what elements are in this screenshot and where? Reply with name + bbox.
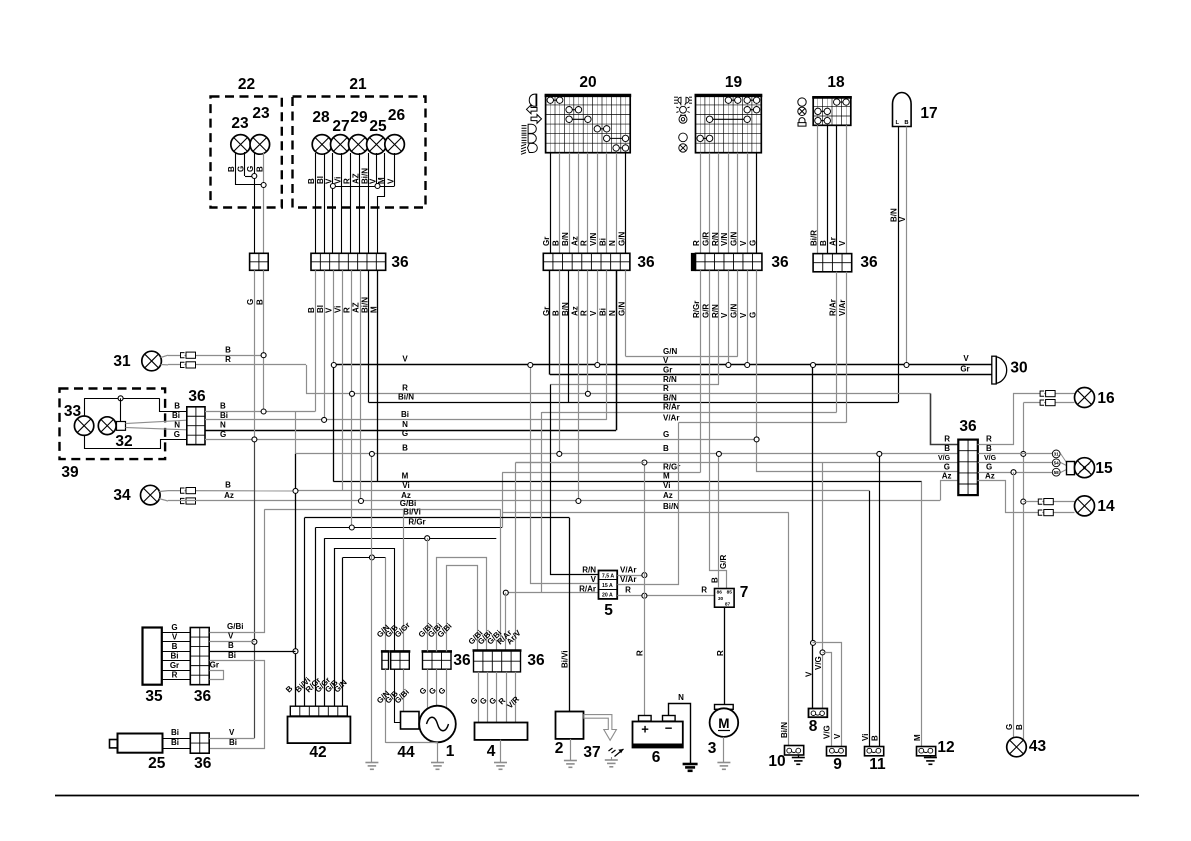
bulb unit 17	[893, 93, 912, 127]
unit 25 box (flasher)	[118, 734, 163, 753]
svg-text:15 A: 15 A	[602, 583, 613, 589]
lamp 14	[1075, 496, 1095, 516]
wire V(1) from connector 19	[728, 270, 730, 365]
bus wire V	[334, 364, 997, 366]
svg-text:−: −	[665, 721, 673, 736]
Bi/N drop to unit 10	[788, 512, 790, 746]
relay output to motor	[724, 607, 726, 704]
svg-text:B/N: B/N	[663, 393, 677, 402]
bus wire V/G	[516, 462, 959, 464]
svg-text:Az: Az	[663, 491, 673, 500]
svg-text:Vi: Vi	[334, 177, 343, 184]
svg-text:N: N	[608, 310, 617, 316]
svg-text:M: M	[663, 472, 670, 481]
svg-text:1: 1	[446, 743, 455, 760]
svg-text:B: B	[228, 641, 234, 650]
lamp 25 (switch cluster)	[367, 135, 387, 155]
svg-text:B/N: B/N	[561, 232, 570, 246]
svg-text:Bl: Bl	[316, 305, 325, 313]
svg-text:27: 27	[332, 118, 349, 135]
Az path to lamp 14	[978, 481, 1075, 513]
svg-text:Bi/N: Bi/N	[398, 392, 414, 401]
svg-text:V: V	[720, 312, 729, 318]
svg-text:M: M	[377, 177, 386, 184]
svg-text:Bi/R: Bi/R	[810, 230, 819, 246]
bus wire Az	[168, 500, 940, 502]
wire B to unit 11	[879, 454, 881, 746]
svg-text:V: V	[838, 240, 847, 246]
wires from switch 20 to connector 36	[550, 153, 552, 254]
svg-text:V: V	[591, 575, 597, 584]
svg-text:R/Gr: R/Gr	[663, 463, 680, 472]
lamp 23 (left)	[231, 135, 251, 155]
svg-text:B: B	[174, 402, 180, 411]
bus wire G	[205, 439, 757, 441]
wire R from connector 21	[351, 270, 353, 527]
svg-text:G/N: G/N	[730, 232, 739, 246]
lamp 15 terminals 31 54 58	[1052, 450, 1060, 458]
R/Ar drop to fuse input	[541, 412, 543, 593]
svg-text:V: V	[172, 632, 178, 641]
svg-text:28: 28	[312, 109, 330, 126]
connector 36 under 18	[822, 254, 824, 272]
ground riser from B bus	[371, 454, 373, 558]
svg-text:36: 36	[188, 388, 206, 405]
unit 35 box	[143, 628, 162, 685]
unit 44 G/B riser	[394, 548, 396, 651]
svg-text:B: B	[1015, 724, 1024, 730]
bus wire R/Ar	[542, 412, 837, 414]
svg-text:G: G	[246, 166, 255, 172]
unit 42 wire G/Gr riser	[324, 538, 326, 706]
svg-text:M: M	[718, 716, 729, 731]
svg-text:B: B	[904, 120, 908, 126]
unit 35 connector 36	[199, 628, 201, 685]
svg-text:B: B	[220, 402, 226, 411]
svg-text:44: 44	[397, 744, 415, 761]
svg-text:L: L	[896, 120, 900, 126]
relay wire B to B bus	[718, 454, 720, 588]
bus wire Bi/N - B/N	[369, 402, 898, 404]
svg-text:Bl: Bl	[316, 176, 325, 184]
wire R/Gr from connector 19	[700, 270, 702, 472]
svg-text:Bi: Bi	[220, 411, 228, 420]
unit 12 (switch)	[917, 747, 936, 756]
svg-text:R/Gr: R/Gr	[408, 517, 425, 526]
svg-text:Vi: Vi	[402, 481, 409, 490]
switch grid 19	[700, 95, 702, 152]
switch 19 contact rows	[728, 99, 737, 101]
svg-text:B: B	[663, 444, 669, 453]
unit 44 G/N riser	[385, 557, 387, 651]
bus wire R/Gr left segment to unit 42	[316, 527, 503, 529]
wire B from connector 20	[559, 270, 561, 454]
wire G/R from connector 19 to relay	[710, 271, 727, 589]
lamp 28	[312, 135, 332, 155]
unit 35 wires to connector	[161, 632, 190, 634]
svg-text:12: 12	[937, 739, 954, 756]
spark ground	[611, 757, 613, 760]
alternator ground wire	[437, 742, 439, 762]
svg-text:V: V	[228, 632, 234, 641]
lamp 26	[385, 135, 405, 155]
svg-text:V: V	[325, 178, 334, 184]
svg-text:14: 14	[1097, 498, 1115, 515]
svg-text:N: N	[174, 421, 180, 430]
svg-text:54: 54	[1054, 461, 1060, 466]
svg-text:B: B	[307, 178, 316, 184]
wire Gr from connector 20	[549, 270, 551, 374]
unit 2 ground	[570, 739, 572, 761]
fuse output R to relay	[617, 595, 714, 597]
unit 44 box	[401, 712, 420, 730]
B row to lamp 15 terminal 31	[978, 453, 1053, 455]
V/G row to lamp 15 terminal 54	[978, 462, 1053, 464]
svg-text:R: R	[402, 384, 408, 393]
bus wire M	[334, 481, 922, 483]
unit 8 (front brake switch)	[809, 709, 828, 718]
wire M to unit 12	[921, 482, 923, 746]
svg-text:Gr: Gr	[170, 661, 179, 670]
Bi/Vi wire drop to unit 2	[569, 518, 571, 712]
svg-text:R: R	[580, 240, 589, 246]
svg-text:7,5 A: 7,5 A	[602, 574, 614, 580]
svg-text:B: B	[256, 166, 265, 172]
alternator ground symbol	[431, 762, 444, 764]
wire Az from connector 20	[578, 270, 580, 501]
lamp 33	[74, 416, 93, 435]
switch 20 contact rows	[550, 99, 559, 101]
svg-text:G: G	[171, 623, 177, 632]
bus wire G/N top	[626, 356, 738, 358]
wire V/G to unit 8	[822, 463, 824, 709]
svg-text:G: G	[246, 299, 255, 305]
svg-text:+: +	[641, 721, 649, 736]
ground symbol of motor 3	[717, 762, 730, 764]
svg-text:B: B	[172, 642, 178, 651]
fuse box 5	[599, 571, 618, 599]
svg-text:V/N: V/N	[589, 232, 598, 246]
unit 44 connector 36	[382, 659, 389, 661]
unit 44 G/Gr riser	[403, 509, 405, 651]
bus wire Bi/N right segment	[502, 512, 789, 514]
wire V from connector 21 continuing to M bus	[333, 270, 335, 365]
svg-text:R: R	[625, 585, 631, 594]
unit 12 ground	[930, 755, 932, 757]
unit 2 (ignition coil)	[556, 712, 584, 739]
svg-text:16: 16	[1097, 390, 1115, 407]
svg-text:Bi: Bi	[171, 738, 179, 747]
wire V from connector 20	[597, 270, 599, 365]
svg-text:31: 31	[113, 353, 131, 370]
svg-text:23: 23	[252, 105, 270, 122]
lamp cluster 21 wires	[315, 153, 317, 196]
motor ground wire	[723, 737, 725, 763]
svg-text:V: V	[229, 728, 235, 737]
svg-text:10: 10	[768, 753, 785, 770]
V distribution wire for 35 and 25 (continuation of G wire)	[254, 439, 256, 738]
unit 35 output V	[209, 641, 254, 643]
svg-text:36: 36	[771, 254, 789, 271]
svg-text:42: 42	[309, 744, 326, 761]
svg-text:V: V	[386, 178, 395, 184]
svg-text:B: B	[710, 577, 719, 583]
G row to lamp 15 terminal 58	[978, 472, 1053, 474]
svg-text:32: 32	[115, 433, 132, 450]
wire G from connector 19	[756, 270, 758, 439]
svg-text:Bi: Bi	[228, 651, 236, 660]
svg-text:3: 3	[708, 740, 717, 757]
svg-text:Gr: Gr	[210, 660, 219, 669]
B wire right drop (16-14-43)	[1023, 403, 1025, 741]
V/G drop to unit 4	[515, 463, 517, 651]
svg-text:8: 8	[809, 718, 818, 735]
svg-text:V: V	[325, 307, 334, 313]
lamp 32 (tail/stop bulb)	[98, 417, 116, 435]
svg-text:N: N	[608, 240, 617, 246]
svg-text:V: V	[898, 216, 907, 222]
lamp 34 wire Az (start of Az line)	[159, 499, 168, 501]
switch 20 function icons	[521, 94, 542, 155]
fuse output V/Ar 1	[617, 575, 644, 577]
wire B/N from connector 20	[568, 270, 570, 402]
wire N from connector 20	[616, 270, 618, 430]
battery ground symbol	[683, 763, 698, 766]
relay 7	[715, 589, 735, 608]
bus wire G/Gr (42 to alternator/4)	[325, 538, 497, 540]
unit 4 wires below connector	[478, 672, 480, 722]
svg-text:V: V	[833, 733, 842, 739]
svg-text:G: G	[220, 430, 226, 439]
unit 11 (switch)	[865, 747, 884, 756]
svg-text:30: 30	[1010, 360, 1027, 377]
wire Vi to unit 11	[869, 491, 871, 746]
Az bus riser to right connector	[941, 481, 959, 501]
svg-text:Bi/Vi: Bi/Vi	[560, 650, 569, 668]
svg-text:V/Ar: V/Ar	[838, 300, 847, 316]
wire V(2) from connector 19	[747, 270, 749, 365]
svg-text:30: 30	[718, 596, 724, 602]
svg-text:58: 58	[1054, 470, 1060, 475]
alternator 1	[419, 706, 456, 743]
unit 9 (rear brake switch)	[827, 747, 847, 756]
fuse output V/Ar 2 rising to V/Ar bus	[618, 423, 679, 585]
svg-text:86: 86	[717, 590, 723, 596]
svg-text:G: G	[174, 430, 180, 439]
alternator wires G below connector	[427, 669, 429, 707]
lamp 27	[331, 135, 351, 155]
svg-text:25: 25	[369, 118, 387, 135]
battery positive wire R	[644, 463, 646, 716]
box 39 internal wiring	[84, 398, 86, 416]
lamp 43	[1007, 737, 1027, 757]
svg-text:V: V	[589, 310, 598, 316]
unit 25 connector 36	[199, 733, 201, 753]
svg-text:87: 87	[725, 601, 731, 607]
wire Vi from connector 21	[342, 270, 344, 491]
svg-text:19: 19	[725, 74, 743, 91]
ground drop below 42 area	[371, 557, 373, 762]
svg-text:37: 37	[583, 744, 600, 761]
lamp 16 wires	[978, 394, 1075, 445]
spark gap symbol 37	[609, 748, 624, 757]
svg-text:Gr: Gr	[960, 365, 969, 374]
unit box 22 (dashed enclosure)	[211, 97, 282, 208]
svg-text:G: G	[237, 166, 246, 172]
unit 25 output V	[209, 738, 254, 740]
svg-text:Vi: Vi	[663, 481, 670, 490]
bus wire N	[205, 430, 616, 432]
svg-text:18: 18	[827, 74, 845, 91]
right connector 36	[967, 440, 969, 496]
wire V to unit 8	[812, 365, 814, 709]
svg-text:29: 29	[350, 109, 368, 126]
svg-text:Bi: Bi	[171, 652, 179, 661]
svg-text:G/N: G/N	[617, 232, 626, 246]
wire G/N from connector 19	[737, 270, 739, 356]
lamp 34 (front turn signal left)	[141, 485, 161, 505]
lamp 23 wires and junctions	[235, 152, 237, 185]
horn 30	[992, 356, 996, 384]
bus wire Bi	[205, 419, 607, 421]
svg-text:V/G: V/G	[984, 455, 997, 462]
svg-text:B: B	[819, 240, 828, 246]
svg-text:17: 17	[920, 105, 937, 122]
svg-text:V: V	[804, 671, 813, 677]
svg-text:M: M	[402, 471, 409, 480]
bus wire B lower segment	[296, 453, 959, 455]
wire R/Ar from connector 18	[836, 272, 838, 412]
svg-text:B: B	[402, 444, 408, 453]
svg-text:85: 85	[727, 590, 733, 596]
svg-text:N: N	[678, 693, 684, 702]
wire R from connector 20	[587, 270, 589, 394]
svg-text:B: B	[307, 307, 316, 313]
unit 4 connector 36	[482, 651, 484, 672]
connector under 22	[258, 253, 260, 270]
R/N drop to fuse	[551, 385, 599, 575]
svg-text:V/Ar: V/Ar	[620, 566, 636, 575]
wire V/Ar from connector 18	[846, 272, 848, 423]
svg-text:15: 15	[1095, 460, 1113, 477]
svg-text:G/R: G/R	[701, 232, 710, 246]
unit 35 output B	[209, 651, 295, 653]
svg-text:2: 2	[555, 740, 564, 757]
svg-text:N: N	[402, 420, 408, 429]
switch grid 18	[817, 97, 819, 125]
svg-text:Bi: Bi	[599, 238, 608, 246]
bus wire G/N of 42 with ground tap	[343, 557, 386, 559]
bus wire Vi with lamp 34 B segment	[296, 490, 870, 492]
svg-text:36: 36	[194, 755, 212, 772]
relay feed line to battery top	[516, 462, 645, 464]
svg-text:R: R	[986, 435, 992, 444]
ground symbol left of 44	[365, 762, 378, 764]
svg-text:43: 43	[1029, 738, 1047, 755]
unit 35 Gr-R jumper loop	[210, 671, 224, 680]
bus wire G/Bi	[264, 509, 501, 511]
svg-text:Bi/N: Bi/N	[780, 722, 789, 738]
svg-text:36: 36	[959, 418, 977, 435]
svg-text:R: R	[636, 650, 645, 656]
wire M from connector 21	[377, 270, 379, 481]
unit 10 ground	[798, 755, 800, 757]
wire B from connector 22	[263, 270, 265, 411]
bus wire R	[306, 393, 931, 395]
svg-text:V/Ar: V/Ar	[620, 575, 636, 584]
svg-text:AZ: AZ	[351, 302, 360, 313]
svg-text:Vi: Vi	[861, 734, 870, 741]
bus wire B upper segment	[205, 411, 315, 413]
svg-text:R/N: R/N	[663, 375, 677, 384]
svg-text:21: 21	[349, 76, 367, 93]
svg-text:36: 36	[860, 254, 878, 271]
bus wire Gr	[550, 374, 997, 376]
svg-text:36: 36	[527, 652, 545, 669]
svg-text:36: 36	[637, 254, 655, 271]
svg-text:Ar: Ar	[829, 237, 838, 246]
svg-text:V: V	[739, 312, 748, 318]
lamp 23 (right)	[250, 135, 270, 155]
svg-text:31: 31	[1054, 452, 1060, 457]
wires from switch 18 to connector 36	[817, 125, 819, 253]
alternator wires G/Bi above connector	[427, 538, 429, 651]
svg-text:R/Ar: R/Ar	[663, 402, 680, 411]
svg-text:G: G	[986, 462, 992, 471]
svg-text:B: B	[986, 444, 992, 453]
svg-text:Bi: Bi	[172, 411, 180, 420]
svg-text:B: B	[552, 240, 561, 246]
lamp 31 (front turn signal)	[142, 351, 162, 371]
starter motor 3	[715, 705, 734, 710]
svg-text:36: 36	[453, 652, 471, 669]
svg-text:B: B	[225, 481, 231, 490]
svg-text:V/Ar: V/Ar	[663, 414, 679, 423]
svg-text:G: G	[402, 429, 408, 438]
svg-text:G/R: G/R	[719, 555, 728, 569]
svg-text:V/N: V/N	[720, 232, 729, 246]
svg-text:11: 11	[869, 756, 886, 773]
svg-text:R/Ar: R/Ar	[579, 585, 596, 594]
unit box 21 (dashed enclosure)	[293, 97, 426, 208]
wire Bi from connector 21	[324, 270, 326, 420]
connector 36 of unit 39	[195, 407, 197, 445]
lamp 31 R feed corner	[306, 365, 308, 394]
svg-text:34: 34	[113, 487, 131, 504]
junction dot of 17 V wire on V bus	[904, 363, 909, 368]
switch 18 contact rows	[837, 101, 846, 103]
svg-text:G: G	[944, 462, 950, 471]
unit 42 wire Bi/Vi riser	[304, 518, 306, 706]
svg-text:G/N: G/N	[663, 347, 677, 356]
svg-text:R: R	[343, 307, 352, 313]
lamp 14 wires	[1023, 501, 1074, 503]
svg-text:R/Gr: R/Gr	[692, 301, 701, 318]
unit 42 wire G/N riser	[342, 557, 344, 706]
svg-text:R: R	[663, 384, 669, 393]
connector 36 under 20	[552, 253, 554, 270]
wire V from 17	[906, 127, 908, 366]
svg-text:R/N: R/N	[711, 232, 720, 246]
wire B from connector 21	[315, 270, 317, 411]
unit 35 output Bi	[210, 661, 265, 749]
battery 6	[633, 722, 683, 748]
unit 42 wire R/Gr riser	[315, 528, 317, 707]
V drop from V bus to fuse	[531, 365, 599, 584]
svg-text:R: R	[225, 355, 231, 364]
svg-text:26: 26	[388, 107, 406, 124]
fuse feed line R/Ar with tap to unit 4	[506, 592, 599, 594]
